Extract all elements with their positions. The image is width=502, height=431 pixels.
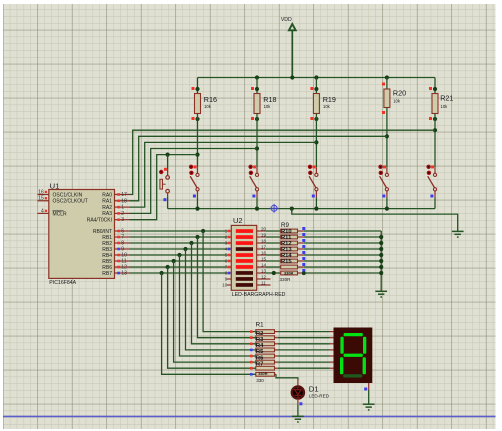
pin U2-13 — [257, 268, 267, 273]
svg-text:4: 4 — [41, 208, 44, 214]
svg-text:OSC1/CLKIN: OSC1/CLKIN — [53, 192, 83, 198]
pin 17 — [115, 192, 130, 198]
wire RB3 riser down — [186, 249, 256, 350]
node bus — [379, 247, 383, 251]
node bus — [379, 241, 383, 245]
svg-text:7: 7 — [121, 235, 124, 241]
pin U2-7 — [225, 264, 232, 269]
svg-text:330R: 330R — [280, 277, 292, 282]
pin 1 — [115, 205, 130, 211]
wire D1 to ground — [298, 399, 303, 417]
wire display common to ground — [364, 383, 369, 404]
pin U2-4 — [225, 246, 232, 251]
svg-text:R15: R15 — [281, 259, 292, 265]
junction marker — [270, 204, 279, 213]
svg-text:14: 14 — [261, 262, 267, 267]
wire RA2 to column — [130, 142, 317, 207]
node rail 386.9 — [385, 207, 389, 211]
svg-text:330R: 330R — [258, 371, 267, 376]
svg-text:5: 5 — [225, 252, 228, 257]
node R18-RA3 — [255, 146, 259, 150]
resistor R9 row 1 — [266, 235, 298, 239]
wire RB1 riser down — [198, 237, 256, 338]
button SW1 — [159, 155, 169, 202]
pin U2-1 — [225, 228, 232, 233]
svg-text:R1: R1 — [256, 322, 264, 329]
svg-text:8: 8 — [121, 241, 124, 247]
wire RA1 to column — [130, 136, 387, 201]
node rail-R19 — [314, 75, 318, 79]
pin 15 OSC2 — [37, 196, 48, 202]
wire RB3 to bargraph — [130, 248, 227, 250]
svg-text:12: 12 — [121, 265, 127, 271]
wire R6 to display — [275, 361, 334, 363]
wire RB0 to bargraph — [130, 230, 227, 232]
svg-text:2: 2 — [225, 234, 228, 239]
svg-text:U1: U1 — [50, 181, 60, 190]
wire R4 to display — [275, 349, 334, 351]
svg-text:RB4: RB4 — [102, 253, 112, 259]
resistor R7 — [250, 366, 275, 370]
svg-text:10: 10 — [222, 282, 228, 287]
pin U2-20 — [257, 226, 267, 231]
wire rail to ground — [292, 209, 458, 232]
svg-text:R11: R11 — [281, 235, 292, 241]
svg-text:18: 18 — [261, 238, 267, 243]
svg-text:6: 6 — [225, 258, 228, 263]
pin 12 — [115, 265, 130, 271]
wire RB4 to bargraph — [130, 254, 227, 256]
node bus — [379, 235, 383, 239]
resistor R9 row 3 — [266, 247, 298, 251]
node rail 197.5 — [195, 207, 199, 211]
wire button bottom — [256, 197, 258, 208]
svg-text:U2: U2 — [233, 216, 242, 225]
svg-text:R5: R5 — [256, 349, 264, 355]
ground below D1 — [292, 415, 304, 417]
button SW2 — [189, 165, 199, 198]
node R21-RA0 — [433, 128, 437, 132]
pin U2-8 — [225, 270, 232, 275]
node rail-VDD — [290, 75, 294, 79]
wire RB6 riser down — [168, 267, 256, 368]
pin 16 OSC1 — [37, 189, 48, 195]
svg-text:1: 1 — [121, 205, 124, 211]
wire RB2 riser down — [192, 243, 256, 344]
svg-text:330: 330 — [256, 378, 264, 383]
LED bargraph U2 — [231, 216, 285, 298]
ground right — [452, 230, 464, 232]
wire R18 bottom to button — [256, 114, 258, 168]
node bus — [379, 259, 383, 263]
svg-text:3: 3 — [225, 240, 228, 245]
svg-text:10k: 10k — [323, 104, 331, 109]
node pin13 junction — [272, 271, 276, 275]
node RB3 riser — [183, 247, 187, 251]
resistor R18 — [251, 87, 276, 121]
resistor R16 — [192, 87, 217, 121]
wire R5 to display — [275, 355, 334, 357]
node R20-RA1 — [385, 134, 389, 138]
svg-text:R9: R9 — [281, 222, 289, 229]
pin 8 — [115, 241, 130, 247]
svg-text:RA1: RA1 — [102, 199, 112, 205]
svg-text:R18: R18 — [263, 95, 276, 104]
wire R3 to display — [275, 343, 334, 345]
pin U2-16 — [257, 250, 267, 255]
resistor R3 — [250, 342, 275, 346]
pin U2-5 — [225, 252, 232, 257]
svg-text:R19: R19 — [323, 95, 336, 104]
resistor R9 row 6 — [266, 265, 298, 269]
svg-text:13: 13 — [121, 271, 127, 277]
pin U2-11 — [257, 280, 271, 285]
node rail 291.8 — [290, 207, 294, 211]
wire RB6 to bargraph — [130, 266, 227, 268]
svg-text:R16: R16 — [204, 95, 217, 104]
resistor R21 — [429, 87, 453, 121]
node RB0 riser — [201, 229, 205, 233]
wire R21 bottom to button — [434, 114, 436, 168]
svg-text:RB1: RB1 — [102, 235, 112, 241]
svg-text:RA2: RA2 — [102, 205, 112, 211]
svg-text:10: 10 — [121, 253, 127, 259]
wire R19 top — [315, 78, 317, 94]
power VDD symbol — [281, 17, 296, 78]
resistor R8 — [250, 372, 275, 376]
svg-text:RA3: RA3 — [102, 211, 112, 217]
svg-text:6: 6 — [121, 229, 124, 235]
svg-text:R2: R2 — [256, 331, 263, 337]
svg-text:RB7: RB7 — [102, 271, 112, 277]
resistor R5 — [250, 354, 275, 358]
svg-text:17: 17 — [261, 244, 267, 249]
wire R18 top — [256, 78, 258, 94]
pin 18 — [115, 198, 130, 204]
svg-text:18: 18 — [121, 198, 127, 204]
svg-text:10k: 10k — [441, 104, 449, 109]
pin U2-6 — [225, 258, 232, 263]
wire R20 top — [386, 78, 388, 90]
svg-text:12: 12 — [261, 274, 267, 279]
op-amp U1 PIC16F84A body — [49, 181, 115, 286]
svg-text:11: 11 — [261, 280, 266, 285]
svg-text:RB6: RB6 — [102, 265, 112, 271]
svg-text:10k: 10k — [393, 99, 401, 104]
svg-text:7: 7 — [225, 264, 228, 269]
pin 10 — [115, 253, 130, 259]
svg-text:4: 4 — [225, 246, 228, 251]
wire R1 to display — [275, 331, 334, 333]
pin 11 — [115, 259, 130, 265]
wire R16 bottom to button — [197, 114, 199, 168]
node bus — [379, 265, 383, 269]
ground below bus — [375, 290, 387, 292]
svg-text:R14: R14 — [281, 253, 292, 259]
node rail-R20 — [385, 75, 389, 79]
button SW4 — [308, 165, 318, 198]
wire R21 top — [434, 78, 436, 94]
wire RA0 to column — [130, 130, 436, 194]
svg-text:RA4/T0CKI: RA4/T0CKI — [87, 218, 112, 224]
wire RB2 to bargraph — [130, 242, 227, 244]
svg-text:17: 17 — [121, 192, 127, 198]
wire RB0 riser down — [203, 231, 256, 332]
pin U2-12 — [257, 274, 271, 279]
svg-text:9: 9 — [121, 247, 124, 253]
svg-text:8: 8 — [225, 270, 228, 275]
resistor R2 — [250, 336, 275, 340]
resistor R1 — [250, 330, 275, 334]
resistor R20 — [382, 83, 406, 115]
pin 3 — [115, 217, 130, 223]
svg-text:9: 9 — [225, 276, 228, 281]
wire R8 to D1 — [275, 374, 298, 379]
svg-text:16: 16 — [38, 189, 44, 195]
node RB7 riser — [160, 271, 164, 275]
node rail 257 — [255, 207, 259, 211]
svg-text:R3: R3 — [256, 337, 264, 343]
svg-text:RB2: RB2 — [102, 241, 112, 247]
node RB2 riser — [189, 241, 193, 245]
pin U2-17 — [257, 244, 267, 249]
svg-text:R13: R13 — [281, 247, 292, 253]
svg-text:10k: 10k — [204, 104, 212, 109]
svg-text:OSC2/CLKOUT: OSC2/CLKOUT — [53, 199, 88, 205]
button SW3 — [248, 165, 258, 198]
pin U2-10 — [222, 282, 231, 287]
resistor R9 row 5 — [266, 259, 298, 263]
wire R2 to display — [275, 337, 334, 339]
svg-text:330R: 330R — [284, 271, 293, 276]
resistor R9 row 0 — [266, 229, 298, 233]
node 330R output — [302, 271, 306, 275]
ground below display — [363, 403, 375, 405]
node RB4 riser — [177, 253, 181, 257]
svg-text:R10: R10 — [281, 229, 292, 235]
wire R9 outputs to bus — [298, 227, 382, 273]
svg-text:15: 15 — [38, 196, 44, 202]
wire RB5 to bargraph — [130, 260, 227, 262]
svg-text:15: 15 — [261, 256, 267, 261]
wire R20 bottom to button — [386, 108, 388, 168]
node rail 316.4 — [314, 207, 318, 211]
svg-text:R6: R6 — [256, 355, 264, 361]
svg-text:3: 3 — [121, 217, 124, 223]
svg-text:RB5: RB5 — [102, 259, 112, 265]
svg-text:13: 13 — [261, 268, 267, 273]
wire bus vertical — [380, 231, 382, 291]
wire button bottom — [197, 197, 199, 208]
pin U2-2 — [225, 234, 232, 239]
node buttonA tap on RA4 — [166, 153, 170, 157]
svg-text:10k: 10k — [264, 104, 272, 109]
LED D1 — [292, 380, 330, 399]
svg-text:RA0: RA0 — [102, 192, 112, 198]
button SW5 — [378, 165, 388, 198]
wire RB7 to bargraph — [130, 272, 227, 274]
pin U2-18 — [257, 238, 267, 243]
svg-text:R12: R12 — [281, 241, 292, 247]
wire RB1 to bargraph — [130, 236, 227, 238]
svg-text:D1: D1 — [309, 385, 319, 394]
wire RA3 to column — [130, 149, 258, 214]
wire RB7 riser down — [162, 273, 256, 374]
svg-text:LED-BARGRAPH-RED: LED-BARGRAPH-RED — [232, 292, 286, 298]
resistor R9 row 2 — [266, 241, 298, 245]
wire R16 top — [197, 78, 199, 94]
pin U2-3 — [225, 240, 232, 245]
pin 6 — [115, 229, 130, 235]
pin 9 — [115, 247, 130, 253]
node R16-RA4 — [195, 153, 199, 157]
wire top power rail — [198, 77, 436, 79]
pin U2-15 — [257, 256, 267, 261]
wire RB5 riser down — [174, 261, 256, 362]
button SW6 — [426, 165, 436, 198]
svg-text:1: 1 — [225, 228, 228, 233]
pin U2-9 — [225, 276, 232, 281]
resistor R6 — [250, 360, 275, 364]
wire RA4 to column — [130, 155, 198, 220]
resistor R4 — [250, 348, 275, 352]
pin U2-19 — [257, 232, 267, 237]
pin 2 — [115, 211, 130, 217]
wire button bottom — [434, 197, 436, 208]
svg-text:VDD: VDD — [281, 17, 292, 23]
pin 13 — [115, 271, 130, 277]
svg-text:PIC16F84A: PIC16F84A — [49, 280, 76, 286]
svg-text:RB3: RB3 — [102, 247, 112, 253]
wire button bottom — [315, 197, 317, 208]
svg-text:R7: R7 — [256, 361, 263, 367]
wire R19 bottom to button — [315, 114, 317, 168]
svg-text:19: 19 — [261, 232, 267, 237]
wire R7 to display — [275, 367, 334, 369]
svg-text:RB0/INT: RB0/INT — [93, 229, 112, 235]
svg-text:R21: R21 — [440, 93, 453, 102]
svg-text:LED-RED: LED-RED — [309, 394, 330, 399]
node RB1 riser — [195, 235, 199, 239]
node RB6 riser — [166, 265, 170, 269]
wire button bottom — [386, 197, 388, 208]
node bus — [379, 271, 383, 275]
svg-text:R20: R20 — [393, 89, 406, 98]
svg-text:20: 20 — [261, 226, 267, 231]
pin 7 — [115, 235, 130, 241]
svg-text:16: 16 — [261, 250, 267, 255]
U1 right pin labels — [87, 192, 113, 276]
resistor R19 — [310, 87, 335, 121]
wire ground rail — [168, 208, 435, 210]
wire SW1 bottom — [167, 196, 169, 208]
svg-text:R4: R4 — [256, 343, 264, 349]
node R19-RA2 — [314, 140, 318, 144]
wire RB4 riser down — [180, 255, 256, 356]
pin 4 MCLR — [37, 208, 48, 214]
svg-text:11: 11 — [121, 259, 126, 265]
svg-text:2: 2 — [121, 211, 124, 217]
resistor R9 row 4 — [266, 253, 298, 257]
sheet border line — [3, 415, 496, 417]
node RB5 riser — [172, 259, 176, 263]
7-segment display body — [334, 328, 373, 384]
pin U2-14 — [257, 262, 267, 267]
svg-text:MCLR: MCLR — [53, 211, 68, 217]
node bus — [379, 253, 383, 257]
resistor R9 row 7 — [266, 271, 298, 275]
node rail-R18 — [255, 75, 259, 79]
